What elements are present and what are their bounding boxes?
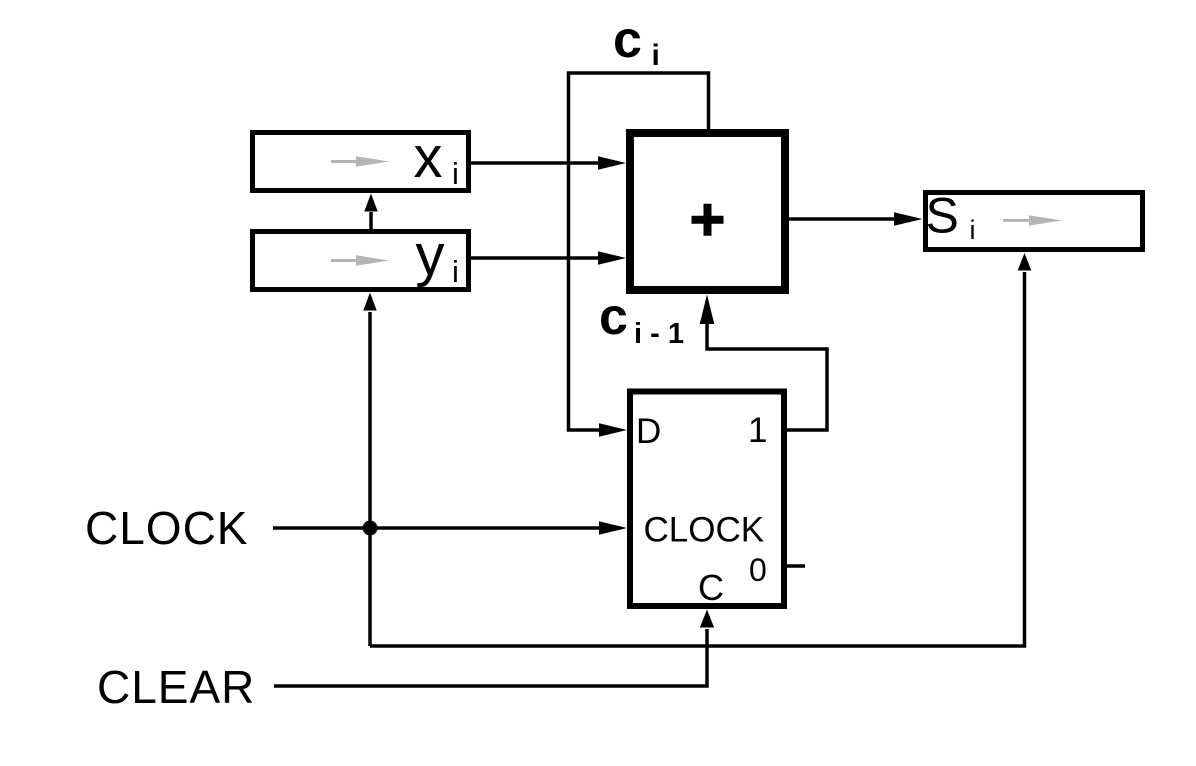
svg-text:y: y <box>416 223 445 288</box>
stub wire output 0 <box>787 564 805 568</box>
wire x register to adder <box>471 156 626 170</box>
wire carry-out loop to D input <box>569 73 709 437</box>
subscript i of x <box>452 156 459 191</box>
subscript i of y <box>452 254 459 289</box>
svg-text:C: C <box>698 567 724 608</box>
register Y box <box>253 232 469 290</box>
svg-text:i - 1: i - 1 <box>634 318 684 350</box>
svg-text:CLOCK: CLOCK <box>85 502 248 554</box>
wire adder to register S <box>789 212 923 226</box>
subscript i of carry out <box>652 39 660 72</box>
label S <box>926 188 959 244</box>
svg-text:c: c <box>599 288 628 346</box>
plus sign of adder <box>692 204 724 236</box>
pin label D <box>636 412 661 451</box>
svg-text:i: i <box>970 215 976 245</box>
pin label 1 <box>748 411 767 450</box>
label c (carry out) <box>613 11 642 69</box>
svg-text:CLOCK: CLOCK <box>644 511 765 550</box>
adder U1 box <box>630 133 785 290</box>
shift arrow (gray) in register S <box>1003 215 1062 225</box>
pin label C <box>698 567 724 608</box>
register X box <box>253 133 469 191</box>
svg-text:i: i <box>652 39 660 72</box>
svg-text:i: i <box>452 254 459 289</box>
svg-text:S: S <box>926 188 959 244</box>
wire y register to adder <box>471 251 626 265</box>
label CLOCK inside flip-flop <box>644 511 765 550</box>
svg-text:1: 1 <box>748 411 767 450</box>
wire CLEAR to flip-flop C input <box>274 610 714 687</box>
wire junction up to register Y <box>363 293 376 647</box>
shift arrow (gray) in register X <box>331 156 389 166</box>
sum register S box <box>926 193 1143 250</box>
label y <box>416 223 445 288</box>
subscript i of S <box>970 215 976 245</box>
wire register Y to register X <box>364 194 377 230</box>
shift arrow (gray) in register Y <box>331 255 389 265</box>
label CLOCK <box>85 502 248 554</box>
svg-text:i: i <box>452 156 459 191</box>
svg-text:c: c <box>613 11 642 69</box>
svg-text:CLEAR: CLEAR <box>97 661 255 713</box>
label CLEAR <box>97 661 255 713</box>
svg-text:0: 0 <box>749 552 767 588</box>
svg-text:x: x <box>414 125 443 190</box>
label x <box>414 125 443 190</box>
wire clock line to register S <box>370 253 1031 646</box>
svg-text:D: D <box>636 412 661 451</box>
subscript i - 1 of carry in <box>634 318 684 350</box>
wire flip-flop output 1 to adder carry-in <box>700 295 827 431</box>
label c (carry in) <box>599 288 628 346</box>
junction dot on CLOCK wire <box>363 521 378 536</box>
flip-flop U2 box <box>630 392 784 607</box>
pin label 0 <box>749 552 767 588</box>
wire CLOCK to flip-flop <box>273 521 627 535</box>
